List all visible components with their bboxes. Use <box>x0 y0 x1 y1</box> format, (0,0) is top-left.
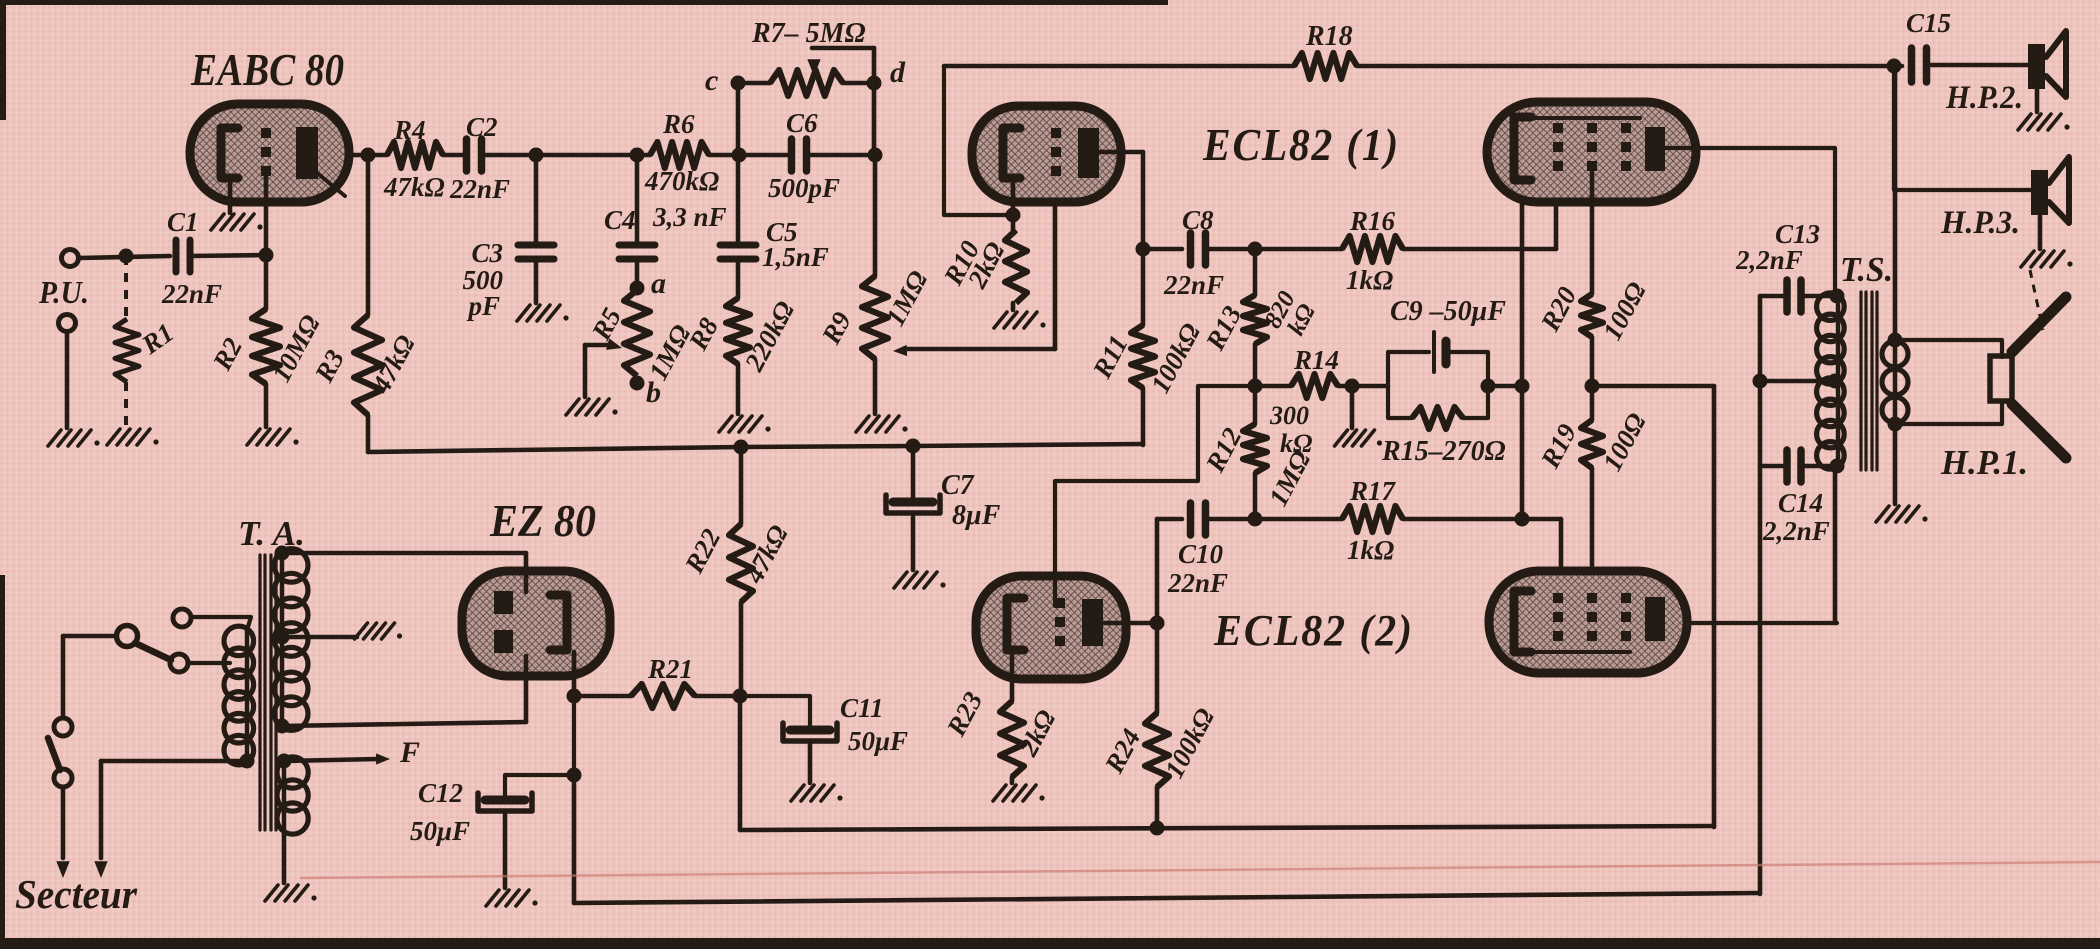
svg-text:500pF: 500pF <box>768 173 840 203</box>
svg-text:R7– 5MΩ: R7– 5MΩ <box>751 18 866 49</box>
svg-text:C3: C3 <box>471 238 503 268</box>
svg-text:C14: C14 <box>1778 488 1823 518</box>
svg-text:470kΩ: 470kΩ <box>644 166 719 196</box>
svg-text:8μF: 8μF <box>952 500 1001 531</box>
svg-text:R6: R6 <box>662 109 695 139</box>
svg-text:C7: C7 <box>941 470 975 501</box>
svg-text:a: a <box>651 267 666 300</box>
svg-text:1,5nF: 1,5nF <box>762 242 829 272</box>
svg-text:C4: C4 <box>604 205 636 235</box>
svg-text:C11: C11 <box>840 693 884 723</box>
svg-text:C10: C10 <box>1178 539 1224 569</box>
svg-text:22nF: 22nF <box>161 279 222 309</box>
svg-text:F: F <box>399 736 420 769</box>
svg-text:50μF: 50μF <box>848 726 908 756</box>
svg-text:C2: C2 <box>466 112 498 142</box>
svg-text:2,2nF: 2,2nF <box>1735 245 1803 275</box>
svg-text:C6: C6 <box>786 108 818 138</box>
svg-text:1kΩ: 1kΩ <box>1347 535 1394 565</box>
svg-text:C12: C12 <box>418 778 463 808</box>
svg-text:C1: C1 <box>167 207 199 237</box>
svg-text:H.P.3.: H.P.3. <box>1940 205 2020 241</box>
svg-text:R18: R18 <box>1305 21 1353 52</box>
svg-text:T.S.: T.S. <box>1840 250 1893 289</box>
svg-text:EABC 80: EABC 80 <box>190 44 344 95</box>
svg-text:H.P.2.: H.P.2. <box>1945 80 2023 116</box>
svg-text:300: 300 <box>1269 401 1309 430</box>
svg-text:R17: R17 <box>1349 476 1397 506</box>
svg-text:R15–270Ω: R15–270Ω <box>1381 436 1506 467</box>
svg-text:22nF: 22nF <box>1163 270 1224 300</box>
svg-text:3,3 nF: 3,3 nF <box>652 202 727 232</box>
svg-text:R21: R21 <box>647 654 693 684</box>
svg-text:EZ 80: EZ 80 <box>489 496 596 546</box>
svg-text:2,2nF: 2,2nF <box>1762 516 1830 546</box>
svg-text:H.P.1.: H.P.1. <box>1940 443 2028 482</box>
svg-text:R4: R4 <box>393 115 426 145</box>
svg-text:P.U.: P.U. <box>38 274 89 310</box>
svg-text:C9 –50μF: C9 –50μF <box>1390 296 1506 327</box>
svg-text:22nF: 22nF <box>1167 568 1228 598</box>
svg-text:50μF: 50μF <box>410 816 470 846</box>
svg-text:22nF: 22nF <box>449 174 510 204</box>
svg-text:1kΩ: 1kΩ <box>1346 265 1393 295</box>
svg-text:C15: C15 <box>1906 8 1951 38</box>
svg-text:R14: R14 <box>1293 345 1339 375</box>
svg-text:d: d <box>890 56 906 89</box>
svg-text:pF: pF <box>466 291 500 321</box>
svg-text:Secteur: Secteur <box>15 871 138 917</box>
svg-text:C8: C8 <box>1182 205 1214 235</box>
svg-text:47kΩ: 47kΩ <box>383 172 445 202</box>
svg-text:ECL82 (2): ECL82 (2) <box>1213 606 1414 655</box>
svg-text:c: c <box>705 64 718 97</box>
svg-text:b: b <box>646 376 661 409</box>
svg-text:ECL82 (1): ECL82 (1) <box>1202 119 1400 170</box>
svg-text:R16: R16 <box>1349 206 1396 236</box>
